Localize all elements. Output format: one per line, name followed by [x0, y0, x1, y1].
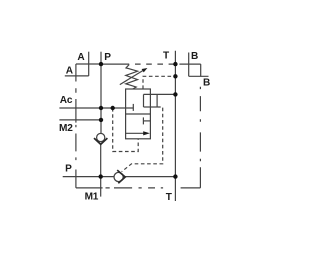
- svg-text:P: P: [65, 164, 72, 175]
- svg-text:P: P: [104, 52, 111, 63]
- svg-text:M2: M2: [59, 123, 73, 134]
- svg-text:M1: M1: [85, 192, 99, 203]
- svg-text:B: B: [203, 77, 210, 88]
- svg-text:T: T: [163, 50, 170, 61]
- svg-text:B: B: [191, 51, 198, 62]
- svg-text:A: A: [77, 52, 85, 63]
- svg-text:Ac: Ac: [60, 95, 73, 106]
- svg-text:T: T: [166, 192, 173, 203]
- svg-text:A: A: [66, 65, 74, 76]
